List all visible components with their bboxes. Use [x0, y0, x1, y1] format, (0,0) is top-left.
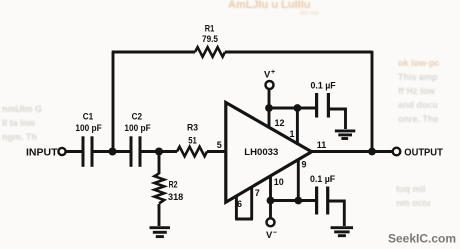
svg-text:im nu: im nu — [300, 10, 319, 17]
svg-text:SeekIC.com: SeekIC.com — [388, 232, 456, 246]
node pin10 junction — [267, 197, 275, 205]
capacitor C1 — [83, 136, 92, 167]
svg-text:100 pF: 100 pF — [124, 123, 151, 133]
wire V- rail horizontal — [271, 199, 317, 202]
svg-text:11: 11 — [317, 140, 327, 150]
wire V- stub down — [269, 201, 272, 220]
terminal V+ — [266, 81, 274, 89]
wire C1 to node A — [92, 150, 130, 153]
ground (R2) — [150, 228, 171, 237]
wire output from apex — [311, 150, 394, 153]
svg-text:onre. The: onre. The — [398, 114, 439, 124]
svg-text:10: 10 — [274, 177, 284, 187]
svg-text:INPUT: INPUT — [26, 148, 58, 159]
wire pin 12 stub — [268, 108, 271, 129]
svg-text:V: V — [264, 69, 271, 80]
op-amp U1 LH0033 triangle — [226, 103, 312, 203]
wire pin 1 stub — [296, 108, 299, 145]
node A junction — [109, 148, 117, 156]
wire feedback right vertical — [371, 51, 374, 152]
svg-text:tuq mil: tuq mil — [396, 184, 426, 194]
svg-text:nmUIm G: nmUIm G — [2, 104, 42, 114]
node output junction — [368, 148, 376, 156]
svg-text:ngm. Th: ngm. Th — [2, 132, 37, 142]
svg-text:100 pF: 100 pF — [75, 123, 102, 133]
terminal OUTPUT — [393, 148, 401, 156]
wire C3 to ground — [328, 109, 345, 129]
wire V+ rail horizontal — [269, 107, 316, 110]
wire input to C1 — [66, 150, 82, 153]
svg-text:1: 1 — [290, 129, 295, 139]
svg-text:R1: R1 — [205, 23, 215, 33]
svg-text:7: 7 — [255, 188, 260, 198]
svg-text:nm ociu: nm ociu — [396, 198, 431, 208]
wire V+ down to rail — [268, 89, 271, 109]
svg-text:9: 9 — [302, 159, 307, 169]
resistor R3 — [177, 147, 207, 157]
svg-text:ll ta lnw: ll ta lnw — [2, 118, 36, 128]
svg-text:79.5: 79.5 — [202, 34, 218, 44]
resistor R1 — [195, 47, 225, 57]
svg-text:0.1 µF: 0.1 µF — [311, 80, 337, 90]
wire feedback top horizontal left of R1 — [112, 51, 195, 54]
svg-text:C1: C1 — [83, 111, 93, 121]
capacitor C4 0.1uF (bottom bypass) — [317, 187, 328, 215]
svg-text:ff Hz low: ff Hz low — [398, 86, 436, 96]
wire pin 6/7 loop — [235, 188, 253, 220]
svg-text:−: − — [273, 230, 277, 237]
ground (C4) — [331, 228, 353, 236]
wire C4 to ground — [328, 201, 345, 226]
svg-text:318: 318 — [168, 192, 183, 202]
wire feedback top horizontal right of R1 — [225, 51, 372, 54]
wire R3 to pin 5 — [207, 150, 226, 153]
node pin9 junction — [294, 197, 302, 205]
resistor R2 — [154, 152, 164, 227]
svg-text:R3: R3 — [187, 123, 198, 133]
svg-text:+: + — [271, 69, 275, 76]
svg-text:and docu: and docu — [398, 100, 438, 110]
svg-text:This amp: This amp — [398, 72, 438, 82]
wire C2 to node B — [140, 150, 177, 153]
terminal INPUT — [58, 148, 65, 155]
svg-text:12: 12 — [275, 118, 285, 128]
svg-text:R2: R2 — [169, 180, 178, 190]
svg-text:51: 51 — [188, 136, 197, 146]
ground (C3) — [335, 131, 356, 139]
node B junction — [155, 148, 163, 156]
svg-text:6: 6 — [237, 199, 242, 209]
node pin1 junction — [294, 104, 302, 112]
wire pin 10 stub — [269, 177, 272, 201]
svg-text:LH0033: LH0033 — [244, 147, 278, 158]
node pin12 junction — [265, 104, 273, 112]
terminal V- — [267, 218, 275, 226]
svg-text:AmLJIu u LuIIIu: AmLJIu u LuIIIu — [228, 0, 311, 11]
capacitor C2 — [131, 136, 140, 167]
svg-text:C2: C2 — [132, 111, 142, 121]
capacitor C3 0.1uF (top bypass) — [317, 93, 329, 118]
svg-text:ok low-pc: ok low-pc — [398, 58, 440, 68]
wire pin 9 stub — [297, 160, 300, 201]
svg-text:5: 5 — [217, 140, 222, 150]
svg-text:OUTPUT: OUTPUT — [404, 148, 443, 159]
svg-text:0.1 µF: 0.1 µF — [310, 174, 336, 184]
wire feedback top left vertical — [112, 52, 115, 152]
